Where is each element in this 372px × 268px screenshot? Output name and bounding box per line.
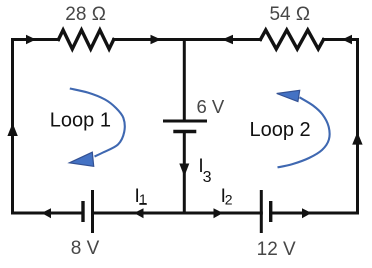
- wire right vertical: [356, 40, 359, 214]
- svg-text:6 V: 6 V: [197, 96, 225, 117]
- wire middle vertical top: [183, 40, 186, 122]
- resistor R1 28 ohm: [59, 30, 114, 49]
- current arrow right of R1 pointing right: [151, 35, 162, 45]
- svg-text:2: 2: [225, 192, 233, 208]
- wire bottom-left segment: [13, 212, 84, 215]
- battery V1 6V long plate: [163, 120, 207, 123]
- svg-text:28 Ω: 28 Ω: [65, 4, 106, 25]
- current arrow I1 pointing left: [134, 208, 144, 218]
- wire bottom-right segment: [271, 212, 358, 215]
- battery V2 8V long plate: [91, 190, 94, 233]
- current arrow I3 pointing down: [179, 164, 189, 177]
- current arrow left of R2 pointing left: [222, 35, 233, 45]
- wire middle vertical bottom: [183, 132, 186, 214]
- wire bottom middle segment: [93, 212, 262, 215]
- svg-text:12 V: 12 V: [257, 239, 296, 260]
- battery V3 12V long plate: [260, 190, 263, 233]
- svg-text:54 Ω: 54 Ω: [269, 4, 310, 25]
- battery V2 8V short plate: [81, 201, 84, 222]
- current arrow bottom-left pointing left: [42, 208, 52, 218]
- wire left vertical: [11, 40, 14, 214]
- current arrow top-right pointing left: [342, 35, 352, 45]
- current arrow right wire pointing up: [352, 132, 362, 145]
- wire top middle segment: [114, 38, 261, 41]
- loop 2 arc arrow: [277, 90, 330, 167]
- svg-text:8 V: 8 V: [71, 238, 100, 259]
- label current I1 subscript foot bar: [139, 203, 147, 205]
- svg-text:Loop 2: Loop 2: [250, 119, 311, 141]
- current arrow I2 pointing right: [214, 208, 224, 218]
- loop 1 arc arrow: [69, 89, 124, 167]
- battery V1 6V short plate: [173, 130, 196, 133]
- battery V3 12V short plate: [269, 201, 272, 222]
- wire top-right segment: [324, 38, 358, 41]
- current arrow right of V3 pointing right: [302, 208, 312, 218]
- wire top-left segment: [13, 38, 59, 41]
- resistor R2 54 ohm: [261, 30, 324, 49]
- current arrow left wire pointing up: [7, 123, 17, 136]
- current arrow top-left pointing right: [26, 35, 36, 45]
- svg-text:Loop 1: Loop 1: [50, 109, 111, 131]
- svg-text:3: 3: [203, 169, 212, 186]
